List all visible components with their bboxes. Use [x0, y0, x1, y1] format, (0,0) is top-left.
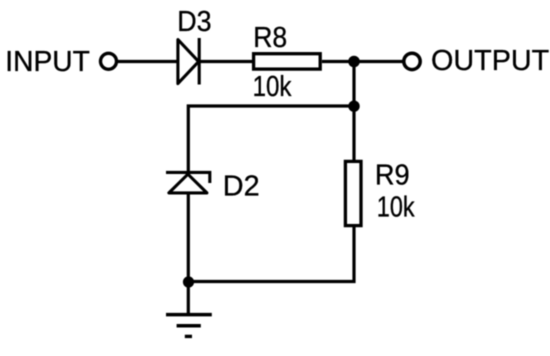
- svg-text:10k: 10k: [377, 192, 415, 224]
- svg-text:OUTPUT: OUTPUT: [431, 45, 549, 77]
- junction node mid rail: [348, 101, 359, 112]
- svg-text:R9: R9: [375, 159, 410, 191]
- svg-text:D2: D2: [223, 171, 260, 203]
- wire R8 to OUTPUT: [322, 60, 403, 63]
- wire R9 down and to ground junction: [188, 227, 354, 282]
- zener diode D2: [166, 172, 210, 193]
- wire output node down to R9: [352, 62, 355, 162]
- svg-text:INPUT: INPUT: [5, 46, 90, 78]
- ground: [166, 315, 212, 337]
- wire D2 to ground rail: [187, 193, 190, 282]
- resistor R9: [345, 161, 361, 225]
- junction node at output rail: [348, 56, 360, 68]
- wire input to D3: [118, 60, 178, 63]
- diode D3: [178, 38, 199, 85]
- wire to ground symbol: [187, 282, 190, 314]
- terminal OUTPUT: [404, 53, 420, 69]
- wire mid horizontal to D2 branch: [188, 106, 354, 172]
- resistor R8: [254, 54, 321, 69]
- junction node ground rail: [183, 276, 194, 287]
- svg-text:D3: D3: [177, 6, 211, 38]
- terminal INPUT: [101, 53, 117, 69]
- svg-text:10k: 10k: [253, 71, 292, 103]
- svg-text:R8: R8: [253, 22, 287, 54]
- wire D3 to R8: [200, 60, 253, 63]
